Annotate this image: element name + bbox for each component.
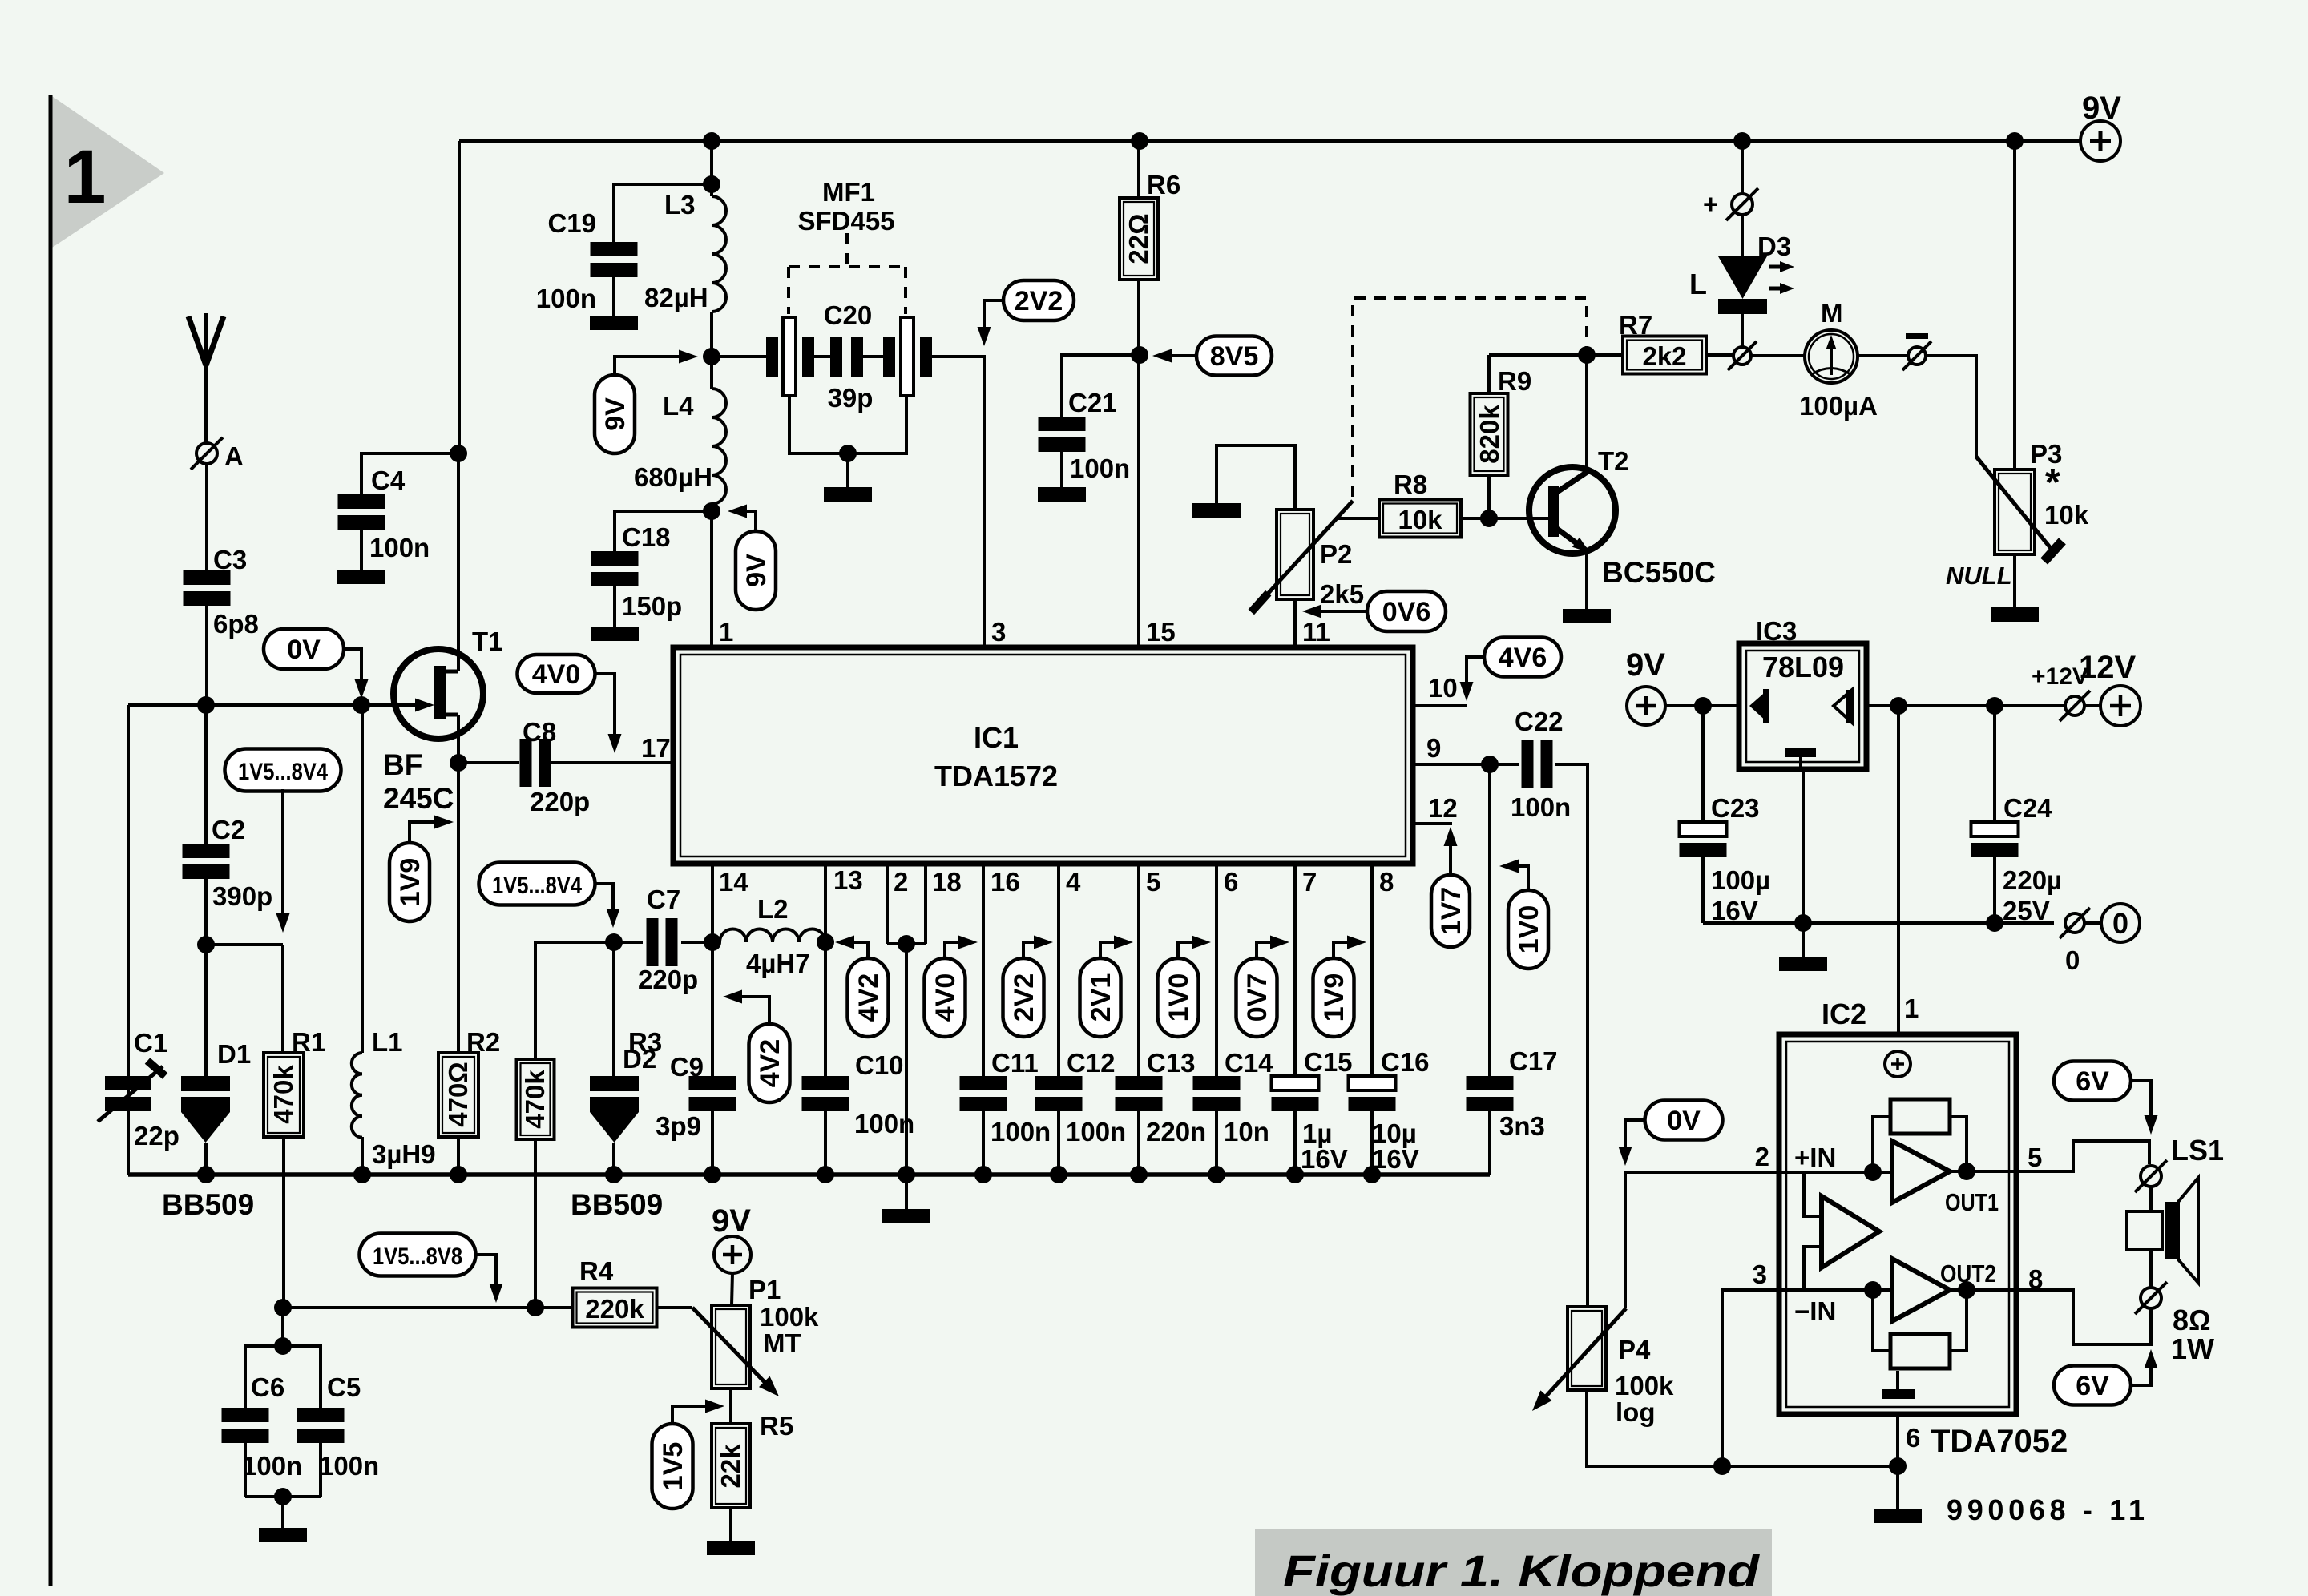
wire C19 branch bbox=[614, 184, 712, 242]
svg-text:0: 0 bbox=[2065, 945, 2080, 975]
svg-text:C7: C7 bbox=[647, 885, 680, 914]
svg-text:0V7: 0V7 bbox=[1242, 973, 1273, 1022]
svg-text:1V5...8V4: 1V5...8V4 bbox=[238, 759, 328, 785]
wire P1 to R5 bbox=[729, 1388, 732, 1424]
node L1-bus bbox=[353, 1166, 371, 1183]
svg-text:C4: C4 bbox=[371, 465, 406, 495]
svg-text:L: L bbox=[1689, 268, 1707, 300]
op-amp OUT2 triangle bbox=[1892, 1259, 1950, 1321]
svg-text:R7: R7 bbox=[1619, 310, 1652, 340]
wire R6 to pin15 bbox=[1137, 280, 1140, 647]
pin 13 label bbox=[833, 865, 863, 895]
svg-text:8Ω: 8Ω bbox=[2173, 1304, 2211, 1336]
svg-text:C18: C18 bbox=[622, 522, 671, 552]
node D2-C7-R3 bbox=[605, 933, 623, 951]
wire C24 to 0 rail bbox=[1993, 857, 1996, 923]
node 8V5 bbox=[1131, 346, 1148, 364]
svg-text:100k: 100k bbox=[1615, 1371, 1674, 1401]
wire R4 to P1 wiper bbox=[657, 1306, 692, 1309]
svg-text:6V: 6V bbox=[2076, 1066, 2109, 1097]
svg-text:16: 16 bbox=[991, 867, 1020, 897]
node L3-L4-MF1 bbox=[703, 348, 720, 365]
svg-text:1V5...8V8: 1V5...8V8 bbox=[373, 1243, 462, 1270]
svg-text:10n: 10n bbox=[1224, 1117, 1269, 1147]
voltage callout 0V7 at pin7 bbox=[1237, 936, 1290, 1038]
svg-text:5: 5 bbox=[2028, 1143, 2042, 1172]
svg-text:R4: R4 bbox=[579, 1256, 614, 1286]
svg-text:1V5...8V4: 1V5...8V4 bbox=[492, 873, 582, 899]
pin 1 label bbox=[719, 617, 733, 647]
svg-text:82µH: 82µH bbox=[644, 283, 708, 312]
node C24 0 rail bbox=[1986, 914, 2003, 932]
pin 8 stub bbox=[1372, 866, 1394, 1076]
svg-text:25V: 25V bbox=[2003, 896, 2050, 925]
node D2-bus bbox=[605, 1166, 623, 1183]
svg-text:0V6: 0V6 bbox=[1382, 597, 1431, 627]
wire 9V top rail bbox=[459, 139, 2080, 143]
wire C19 to ground bbox=[612, 277, 615, 316]
svg-text:R9: R9 bbox=[1498, 366, 1531, 396]
wire IC3 out bbox=[1866, 704, 2065, 707]
svg-text:12: 12 bbox=[1428, 793, 1458, 823]
svg-text:2V2: 2V2 bbox=[1009, 973, 1039, 1022]
node D1-bus bbox=[197, 1166, 215, 1183]
wire OUT1 bbox=[1950, 1170, 2016, 1173]
node T1 source bbox=[450, 754, 467, 772]
ground T2 emitter bbox=[1563, 609, 1611, 623]
wire C23 to 0 rail bbox=[1701, 857, 1705, 923]
svg-text:2V2: 2V2 bbox=[1015, 286, 1063, 316]
node C15-bus bbox=[1286, 1166, 1304, 1183]
capacitor C10 100n bbox=[802, 1050, 915, 1139]
svg-text:4µH7: 4µH7 bbox=[746, 949, 810, 978]
svg-text:470Ω: 470Ω bbox=[443, 1062, 473, 1127]
node rail-P3 bbox=[2006, 132, 2024, 150]
voltage callout 1V0 at volume line bbox=[1499, 860, 1548, 969]
varicap diode D2 BB509 bbox=[571, 942, 663, 1221]
node C4 tap bbox=[450, 445, 467, 462]
svg-text:16V: 16V bbox=[1301, 1144, 1348, 1174]
svg-text:L1: L1 bbox=[372, 1027, 403, 1057]
potentiometer P1 100k MT bbox=[692, 1275, 819, 1396]
voltage callout 0V at T1 gate bbox=[264, 629, 369, 699]
wire C24 branch bbox=[1993, 706, 1996, 822]
svg-text:−IN: −IN bbox=[1794, 1296, 1836, 1326]
wire P2 wiper to R8 bbox=[1335, 517, 1379, 520]
node pin2-18 bbox=[898, 935, 915, 953]
svg-text:C17: C17 bbox=[1509, 1046, 1558, 1076]
IC2 internal ground bbox=[1882, 1371, 1915, 1399]
inductor L2 4uH7 bbox=[720, 894, 825, 978]
wire C2 node to C2 bbox=[204, 705, 208, 844]
wire R9 top to R7 bbox=[1489, 353, 1623, 357]
svg-text:C5: C5 bbox=[327, 1372, 361, 1402]
svg-text:1V0: 1V0 bbox=[1164, 973, 1194, 1022]
resistor R8 10k bbox=[1379, 470, 1461, 538]
svg-text:C12: C12 bbox=[1067, 1048, 1116, 1078]
ground IC3 bbox=[1779, 923, 1827, 971]
svg-text:P2: P2 bbox=[1320, 539, 1352, 569]
voltage callout 2V2 at pin3 bbox=[978, 280, 1075, 346]
node C5-C6 bottom bbox=[274, 1488, 292, 1505]
svg-text:4V0: 4V0 bbox=[532, 659, 581, 690]
capacitor C23 100u 16V bbox=[1680, 793, 1771, 925]
svg-text:C21: C21 bbox=[1068, 388, 1117, 417]
node C10-bus bbox=[817, 1166, 834, 1183]
wire C6 C5 bottom join bbox=[245, 1495, 321, 1498]
svg-text:100µA: 100µA bbox=[1799, 391, 1878, 421]
wire node to R1 top bbox=[206, 945, 283, 1053]
capacitor C22 100n bbox=[1490, 707, 1571, 822]
svg-text:R1: R1 bbox=[292, 1027, 325, 1057]
wire pad2 to P3 bbox=[1927, 356, 1976, 457]
wire L4 to IC1 pin1 bbox=[710, 511, 713, 647]
voltage callout 4V2 at pin14 bbox=[723, 990, 790, 1103]
svg-text:100n: 100n bbox=[319, 1451, 379, 1481]
varicap diode D1 BB509 bbox=[162, 1039, 254, 1221]
svg-text:C11: C11 bbox=[991, 1048, 1039, 1078]
transistor T2 BC550C NPN bbox=[1529, 355, 1716, 609]
capacitor C24 220u 25V bbox=[1971, 793, 2063, 925]
pin labels IC2 bbox=[1753, 1142, 2044, 1453]
node C3-C2-gate bbox=[197, 696, 215, 714]
wire T1 source down bbox=[457, 715, 460, 1053]
svg-text:100n: 100n bbox=[369, 533, 430, 562]
wire pin5 to LS1 bbox=[2016, 1141, 2149, 1171]
voltage callout 1V9 at T1 source bbox=[389, 816, 454, 922]
svg-text:C6: C6 bbox=[251, 1372, 284, 1402]
feedback resistor upper bbox=[1873, 1099, 1967, 1172]
voltage callout 1V5...8V8 bbox=[360, 1234, 503, 1304]
svg-text:C1: C1 bbox=[134, 1028, 167, 1058]
svg-text:D1: D1 bbox=[217, 1039, 251, 1069]
wire C21 to ground bbox=[1060, 452, 1063, 487]
node C23 tap bbox=[1694, 697, 1712, 715]
node IC3 gnd bbox=[1794, 914, 1812, 932]
op-amp IC1 TDA1572 main radio IC bbox=[673, 647, 1413, 864]
terminal 0 bbox=[2084, 904, 2140, 942]
voltage callout 6V at OUT1 bbox=[2054, 1062, 2158, 1135]
node R2-bus bbox=[450, 1166, 467, 1183]
LED D3 indicator bbox=[1689, 141, 1794, 346]
meter M 100uA bbox=[1799, 298, 1878, 421]
svg-text:100n: 100n bbox=[1070, 453, 1130, 483]
pad meter left bbox=[1728, 341, 1757, 370]
svg-text:4V6: 4V6 bbox=[1499, 643, 1547, 673]
node rail-D3 bbox=[1733, 132, 1751, 150]
wire node to C6 C5 bbox=[281, 1308, 284, 1346]
svg-text:T1: T1 bbox=[472, 627, 503, 656]
wire MF1 electrode legs to ground bbox=[789, 396, 906, 453]
capacitor C8 220p bbox=[520, 717, 591, 816]
wire R2 to bus bbox=[457, 1137, 460, 1175]
pad 0 bbox=[2060, 908, 2090, 975]
node gate-L1 bbox=[353, 696, 370, 714]
node C11-bus bbox=[974, 1166, 992, 1183]
resistor R5 22k bbox=[712, 1411, 793, 1508]
wire P2 to pin11 bbox=[1293, 599, 1297, 647]
svg-text:6: 6 bbox=[1906, 1423, 1920, 1453]
capacitor C2 bbox=[183, 815, 273, 911]
node MF1 ground leg bbox=[839, 445, 857, 462]
svg-text:9: 9 bbox=[1426, 733, 1441, 763]
svg-text:12V: 12V bbox=[2079, 650, 2136, 685]
label TDA7052 bbox=[1931, 1424, 2068, 1459]
node L4-C18-pin1 bbox=[703, 502, 720, 520]
svg-text:R5: R5 bbox=[760, 1411, 793, 1441]
ground C5 C6 bbox=[259, 1497, 307, 1542]
svg-text:BF: BF bbox=[383, 748, 422, 781]
svg-text:2: 2 bbox=[1755, 1142, 1769, 1171]
svg-text:C22: C22 bbox=[1515, 707, 1564, 736]
svg-text:2: 2 bbox=[894, 867, 908, 897]
svg-text:P1: P1 bbox=[748, 1275, 781, 1304]
potentiometer P3 10k NULL bbox=[1946, 142, 2089, 607]
svg-text:8V5: 8V5 bbox=[1210, 341, 1259, 372]
svg-text:10k: 10k bbox=[2044, 500, 2089, 530]
capacitor C14 10n bbox=[1193, 1048, 1274, 1147]
node P4-pin3 gnd bbox=[1713, 1457, 1731, 1475]
svg-text:BB509: BB509 bbox=[162, 1188, 254, 1221]
wire A to C3 bbox=[205, 465, 208, 570]
svg-text:1V9: 1V9 bbox=[1319, 973, 1350, 1022]
svg-text:C8: C8 bbox=[523, 717, 556, 747]
capacitor C1 variable trimmer bbox=[98, 1028, 180, 1175]
ground C18 bbox=[591, 627, 639, 641]
voltage callout 1V5...8V4 at D2 bbox=[479, 863, 620, 929]
svg-text:10k: 10k bbox=[1398, 505, 1442, 534]
pin 3 label bbox=[991, 617, 1006, 647]
svg-text:C19: C19 bbox=[547, 208, 596, 238]
voltage callout 1V5...8V4 at C2 bbox=[225, 749, 341, 933]
svg-text:14: 14 bbox=[719, 867, 748, 897]
svg-text:13: 13 bbox=[833, 865, 863, 895]
node C2-R1 bbox=[197, 936, 215, 953]
svg-text:22k: 22k bbox=[716, 1444, 745, 1489]
svg-text:0V: 0V bbox=[287, 635, 321, 665]
svg-text:TDA7052: TDA7052 bbox=[1931, 1424, 2068, 1459]
inductor L4 680uH bbox=[634, 357, 726, 511]
wire C4 branch bbox=[361, 453, 458, 494]
svg-text:820k: 820k bbox=[1475, 405, 1504, 464]
svg-text:3p9: 3p9 bbox=[656, 1111, 701, 1141]
svg-text:T2: T2 bbox=[1598, 446, 1629, 476]
svg-text:1: 1 bbox=[1904, 993, 1919, 1023]
svg-text:R8: R8 bbox=[1394, 470, 1427, 499]
wire IC3 out to IC2 pin1 bbox=[1898, 706, 1919, 1034]
svg-text:4V2: 4V2 bbox=[755, 1039, 785, 1088]
pin 14 label bbox=[719, 867, 748, 897]
audio amp IC2 TDA7052 bbox=[1779, 997, 2016, 1414]
node R9-R7-T2 collector bbox=[1578, 346, 1596, 364]
pin 7 stub bbox=[1295, 866, 1317, 1076]
svg-text:2k2: 2k2 bbox=[1642, 341, 1686, 371]
node C24 tap bbox=[1986, 697, 2003, 715]
svg-text:100n: 100n bbox=[536, 284, 596, 313]
svg-text:log: log bbox=[1616, 1397, 1655, 1427]
op-amp OUT1 triangle bbox=[1892, 1141, 1950, 1203]
ground center bus bbox=[882, 1175, 930, 1223]
node R8-R9 bbox=[1480, 510, 1498, 527]
transistor T1 BF245C JFET bbox=[383, 627, 503, 815]
page corner marker triangle bbox=[50, 95, 164, 249]
capacitor C21 100n bbox=[1039, 388, 1131, 483]
voltage callout 9V at pin1 bbox=[728, 505, 776, 611]
capacitor C6 100n bbox=[222, 1346, 303, 1497]
voltage callout 2V1 at pin5 bbox=[1080, 936, 1134, 1038]
voltage callout 1V5 at R5 bbox=[652, 1400, 725, 1509]
svg-text:220µ: 220µ bbox=[2003, 865, 2062, 895]
pin 4 stub bbox=[1059, 866, 1081, 1076]
pin 15 label bbox=[1146, 617, 1176, 647]
svg-text:9V: 9V bbox=[600, 397, 631, 431]
pad LS1 bottom bbox=[2135, 1282, 2167, 1314]
caption box bbox=[1255, 1529, 1772, 1596]
svg-text:470k: 470k bbox=[520, 1070, 550, 1129]
voltage callout 4V2 at pin13 bbox=[835, 936, 889, 1038]
wire C18 branch bbox=[615, 511, 712, 551]
svg-text:100n: 100n bbox=[1511, 792, 1571, 822]
svg-text:L3: L3 bbox=[664, 190, 696, 220]
svg-text:11: 11 bbox=[1302, 617, 1330, 647]
svg-text:17: 17 bbox=[641, 733, 671, 763]
svg-text:9V: 9V bbox=[2082, 91, 2121, 126]
svg-text:220k: 220k bbox=[585, 1294, 644, 1324]
node rail-R6 bbox=[1131, 132, 1148, 150]
wire R7 to pad bbox=[1706, 353, 1733, 357]
svg-text:OUT2: OUT2 bbox=[1940, 1259, 1996, 1288]
antenna ANT bbox=[188, 313, 224, 443]
wire node to MF1 bbox=[712, 355, 766, 358]
node C16-bus bbox=[1363, 1166, 1381, 1183]
document number bbox=[1947, 1493, 2145, 1526]
wire R1 bottom through bus to tuning line bbox=[282, 1137, 285, 1308]
resistor R4 220k bbox=[573, 1256, 657, 1328]
resistor R6 22ohm bbox=[1120, 141, 1180, 280]
node L2-C10-pin13 bbox=[817, 933, 834, 951]
svg-text:M: M bbox=[1821, 298, 1843, 328]
left page border line bbox=[49, 95, 53, 1586]
svg-text:1: 1 bbox=[719, 617, 733, 647]
wire rail to L3 bbox=[710, 141, 713, 196]
svg-text:R6: R6 bbox=[1147, 170, 1180, 199]
wire C21 branch bbox=[1062, 355, 1140, 417]
svg-text:1V0: 1V0 bbox=[1514, 905, 1544, 954]
svg-text:D3: D3 bbox=[1757, 232, 1791, 261]
resistor R1 470k bbox=[264, 1027, 325, 1137]
wire MF1 to pin3 bbox=[932, 357, 984, 647]
svg-text:1: 1 bbox=[64, 135, 107, 220]
wire R5 to ground bbox=[729, 1508, 732, 1541]
wire R3 to tuning line bbox=[534, 1139, 537, 1308]
svg-text:15: 15 bbox=[1146, 617, 1176, 647]
svg-text:220p: 220p bbox=[530, 787, 590, 816]
op-amp input buffer triangle bbox=[1822, 1196, 1879, 1268]
9V supply terminal P1 bbox=[712, 1203, 751, 1273]
svg-text:9V: 9V bbox=[741, 554, 772, 587]
svg-text:78L09: 78L09 bbox=[1762, 651, 1844, 683]
wire 9V to IC3 bbox=[1665, 704, 1739, 707]
9V supply terminal IC3 bbox=[1626, 647, 1665, 725]
pins 2 and 18 join to ground bbox=[887, 866, 962, 1175]
resistor R2 470ohm bbox=[438, 1027, 500, 1137]
wire IC3 ground to 0 rail bbox=[1802, 769, 1805, 923]
node pin9 bbox=[1481, 756, 1499, 773]
wire -IN path bbox=[1779, 1247, 1892, 1326]
speaker LS1 8ohm 1W bbox=[2127, 1134, 2224, 1365]
capacitor C16 10u 16V electrolytic bbox=[1349, 1047, 1430, 1174]
svg-text:IC2: IC2 bbox=[1822, 997, 1866, 1030]
svg-text:10: 10 bbox=[1428, 673, 1458, 703]
wire C2 to D1 bbox=[204, 879, 208, 1076]
capacitor C7 220p bbox=[614, 885, 698, 994]
wire source to C8 bbox=[458, 761, 519, 764]
pin 13 stub bbox=[824, 866, 827, 1076]
voltage regulator IC3 78L09 bbox=[1739, 616, 1866, 769]
svg-text:8: 8 bbox=[1379, 867, 1394, 897]
voltage callout 4V6 at pin10 bbox=[1460, 638, 1562, 702]
svg-text:C16: C16 bbox=[1381, 1047, 1430, 1077]
inductor L3 82uH bbox=[644, 190, 726, 357]
wire pin2 to P4 wiper bbox=[1625, 1172, 1779, 1308]
svg-text:220p: 220p bbox=[638, 965, 698, 994]
svg-text:6V: 6V bbox=[2076, 1371, 2109, 1401]
wire C10 to bus bbox=[824, 1111, 827, 1175]
wire MF1 center to ground bbox=[846, 453, 849, 487]
svg-text:100k: 100k bbox=[760, 1302, 819, 1332]
svg-text:680µH: 680µH bbox=[634, 462, 712, 492]
wire gate line left drop bbox=[127, 705, 130, 1175]
svg-text:C9: C9 bbox=[670, 1052, 704, 1082]
svg-text:*: * bbox=[2045, 461, 2060, 504]
svg-text:7: 7 bbox=[1302, 867, 1317, 897]
ground MF1 bbox=[824, 487, 872, 502]
svg-text:1V7: 1V7 bbox=[1436, 887, 1467, 936]
node C6-C5 top bbox=[274, 1337, 292, 1355]
voltage callout 6V at OUT2 bbox=[2054, 1349, 2158, 1405]
svg-text:2V1: 2V1 bbox=[1086, 973, 1116, 1022]
svg-text:R2: R2 bbox=[466, 1027, 500, 1057]
pin 14 stub bbox=[711, 866, 714, 1076]
wire main ground bus bbox=[128, 1172, 1490, 1177]
pin 6 stub bbox=[1217, 866, 1238, 1076]
svg-text:BC550C: BC550C bbox=[1602, 556, 1716, 589]
ground C19 bbox=[590, 316, 638, 330]
node pin6 gnd bbox=[1889, 1457, 1907, 1475]
capacitor C15 1u 16V electrolytic bbox=[1272, 1047, 1353, 1174]
svg-text:3n3: 3n3 bbox=[1499, 1111, 1545, 1141]
svg-text:3µH9: 3µH9 bbox=[372, 1139, 436, 1169]
svg-text:100n: 100n bbox=[242, 1451, 302, 1481]
wire pin6 bbox=[1896, 1414, 1899, 1466]
ground P3 bbox=[1991, 607, 2039, 622]
svg-text:MF1: MF1 bbox=[822, 177, 875, 207]
svg-text:C20: C20 bbox=[824, 300, 873, 330]
svg-text:P4: P4 bbox=[1618, 1335, 1651, 1364]
capacitor C3 bbox=[184, 545, 259, 639]
svg-text:C23: C23 bbox=[1711, 793, 1760, 823]
resistor R9 820k bbox=[1471, 355, 1532, 518]
wire C7 to pin14 bbox=[681, 941, 712, 944]
voltage callout 4V0 at pin17 bbox=[518, 655, 622, 753]
svg-text:MT: MT bbox=[763, 1328, 801, 1358]
wire C22 to P4 bbox=[1555, 764, 1588, 1307]
feedback resistor lower bbox=[1873, 1290, 1967, 1368]
ground R5 bbox=[707, 1541, 755, 1555]
potentiometer P2 2k5 bbox=[1249, 501, 1364, 615]
ground C21 bbox=[1038, 487, 1086, 502]
capacitor C19 100n bbox=[536, 208, 638, 313]
